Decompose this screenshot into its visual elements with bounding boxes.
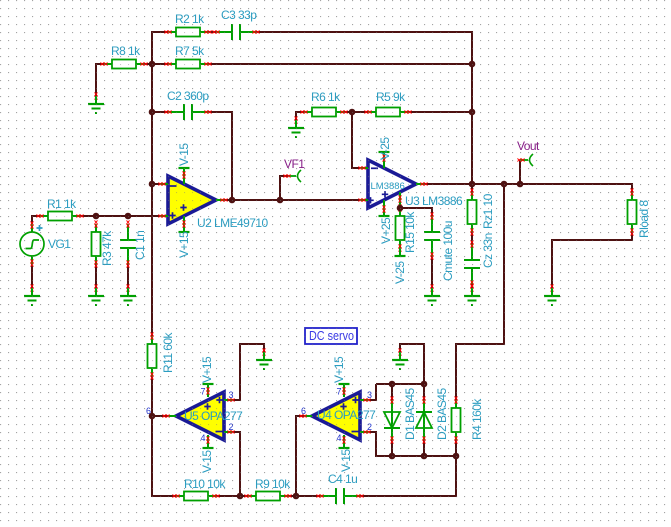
power V+15 bar below U2	[179, 216, 190, 232]
wire R8-R7 node	[144, 63, 168, 65]
power V-25 bar above U3	[379, 152, 390, 168]
junction R9-C4	[293, 493, 300, 500]
wire output bus right segment	[471, 64, 473, 184]
wire output node to R4 top	[456, 184, 504, 400]
wire R5 right to output bus	[408, 111, 472, 113]
wire C1 bottom to ground	[127, 264, 129, 288]
wire D1 bottom stub	[391, 440, 393, 456]
resistor R4	[452, 396, 461, 443]
wire VG1 to R1	[32, 216, 40, 224]
resistor R8	[100, 60, 147, 69]
label box DC servo	[305, 328, 357, 344]
junction R10-R9	[237, 493, 244, 500]
wire servo ground branch	[400, 344, 424, 384]
junction U5 output bus	[149, 413, 156, 420]
wire U5 noninverting to ground	[232, 344, 264, 400]
resistor R6	[300, 108, 347, 117]
wire R10-R9 link	[216, 495, 248, 497]
wire Rload bottom to ground	[552, 232, 632, 288]
op-amp U4	[299, 392, 370, 440]
wire Cmute bottom to ground	[431, 256, 433, 288]
resistor R5	[364, 108, 411, 117]
junction VF1 node	[277, 197, 284, 204]
wire U2 output to U3 noninverting input	[232, 199, 360, 201]
junction mute node	[397, 205, 404, 212]
wire R9-C4 link	[288, 495, 320, 497]
junction U2 output	[229, 197, 236, 204]
resistor R10	[172, 492, 219, 501]
junction R1-R3	[93, 213, 100, 220]
node Vout pin	[517, 154, 533, 166]
resistor Rz1	[468, 188, 477, 235]
wire D2 top stub	[423, 384, 425, 400]
wire C3 right to output bus	[256, 32, 472, 64]
junction D2 bottom	[421, 453, 428, 460]
diode D1	[384, 396, 400, 443]
wire U4 inverting to diode bottom row	[368, 432, 456, 456]
junction D1 top	[389, 381, 396, 388]
wire U2 output stub	[224, 199, 232, 201]
wire C2 right to U2 output	[208, 112, 232, 200]
wire left bus lower	[151, 184, 153, 336]
resistor R7	[164, 60, 211, 69]
wire diode bottom row to C4	[360, 456, 456, 496]
ground under Rload	[544, 284, 560, 306]
wire U4 noninverting to diode top row	[368, 384, 376, 400]
op-amp U5	[162, 392, 234, 440]
ground under R6	[288, 116, 304, 138]
junction output node	[469, 181, 476, 188]
junction bus-R7	[469, 61, 476, 68]
wire Vout probe drop	[519, 160, 521, 184]
wire diode top row	[376, 383, 424, 385]
ground under C1	[120, 284, 136, 306]
op-amp U3 LM3886	[358, 160, 427, 208]
wire R8 left to ground	[96, 64, 104, 96]
wire R6 left to ground	[296, 112, 304, 120]
ground under Cmute	[424, 284, 440, 306]
junction R4 bottom	[453, 453, 460, 460]
junction output-Vout	[517, 181, 524, 188]
wire D1 top stub	[391, 384, 393, 400]
junction D1 bottom	[389, 453, 396, 460]
wire left bus to bottom rail	[152, 376, 176, 496]
wire D2 bottom stub	[423, 440, 425, 456]
junction D2 top	[421, 381, 428, 388]
capacitor Cz	[464, 240, 480, 287]
wire U4 output to bottom rail	[296, 416, 304, 496]
wire U5 inverting to R10-R9 node	[232, 432, 240, 496]
resistor R15	[396, 204, 405, 251]
ground under Cz	[464, 284, 480, 306]
wire R3 bottom to ground	[95, 264, 97, 288]
power V-25 bar below R15	[395, 248, 406, 256]
resistor R1	[36, 212, 83, 221]
resistor R2	[164, 28, 211, 37]
power V-15 bar above U2	[179, 168, 190, 184]
power V+15 bar above U4	[339, 384, 350, 397]
wire VF1 probe	[280, 176, 288, 200]
junction C2-bus	[149, 109, 156, 116]
wire mute pin to Cmute	[400, 208, 432, 216]
capacitor C2	[164, 104, 211, 120]
op-amp U2	[158, 176, 227, 224]
wire U2 inverting stub	[152, 183, 160, 185]
voltage generator VG1	[20, 221, 44, 266]
capacitor C3	[212, 24, 259, 40]
capacitor Cmute	[424, 212, 440, 259]
diode D2	[416, 396, 432, 443]
ground at U5 noninverting	[256, 348, 272, 370]
wire R6/R5 node to U3 inverting input	[352, 112, 360, 168]
wire R2-C3 link	[208, 31, 216, 33]
capacitor C4	[316, 488, 363, 504]
wire R2 left to feedback bus top	[152, 32, 168, 64]
wire Rz1 top stub	[471, 184, 473, 192]
junction output-R4 branch	[501, 181, 508, 188]
ground under VG1	[24, 284, 40, 306]
junction R6-R5	[349, 109, 356, 116]
wire output node to Rload	[472, 184, 632, 192]
resistor R11	[148, 332, 157, 379]
wire U3 output	[424, 183, 472, 185]
ground under R8	[88, 92, 104, 114]
power V-15 bar below U5	[203, 435, 214, 448]
ground at U4 noninverting	[392, 348, 408, 370]
resistor R3	[92, 220, 101, 267]
ground under R3	[88, 284, 104, 306]
junction U2 inverting bus	[149, 181, 156, 188]
wire U5 output stub	[152, 415, 168, 417]
resistor R9	[244, 492, 291, 501]
junction R8-R7-bus	[149, 61, 156, 68]
wire R4 bottom stub	[455, 440, 457, 456]
junction R1-C1	[125, 213, 132, 220]
power V+15 bar above U5	[203, 384, 214, 397]
wire R7 right to output bus	[208, 63, 472, 65]
power V-15 bar below U4	[339, 435, 350, 448]
wire VG1 bottom to ground	[31, 264, 33, 288]
wire C2 left stub	[152, 111, 168, 113]
capacitor C1	[120, 220, 136, 267]
junction bus-R5	[469, 109, 476, 116]
power V+25 bar below U3	[379, 200, 390, 216]
wire Rz1-Cz link	[471, 232, 473, 244]
wire R1 to U2 noninverting input	[80, 215, 160, 217]
wire R6-R5 node	[344, 111, 368, 113]
node VF1 pin	[283, 170, 301, 182]
wire left bus upper	[151, 64, 153, 184]
wire Cz bottom to ground	[471, 284, 473, 288]
resistor Rload	[628, 188, 637, 235]
